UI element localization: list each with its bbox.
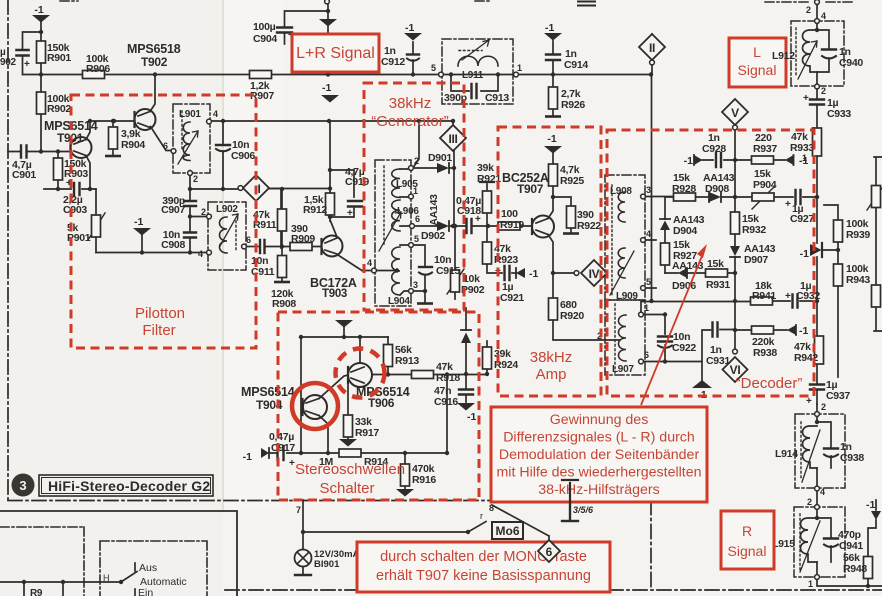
svg-text:-1: -1 xyxy=(405,22,414,34)
svg-text:R937: R937 xyxy=(753,143,777,155)
svg-text:R943: R943 xyxy=(846,274,870,286)
svg-text:R906: R906 xyxy=(86,63,110,75)
svg-text:C933: C933 xyxy=(827,108,851,120)
svg-text:C906: C906 xyxy=(231,150,255,162)
svg-text:L908: L908 xyxy=(610,186,632,197)
svg-text:MPS6518: MPS6518 xyxy=(127,42,181,56)
svg-text:C915: C915 xyxy=(436,265,460,277)
svg-text:“Generator”: “Generator” xyxy=(371,113,449,130)
svg-text:902: 902 xyxy=(0,57,17,68)
svg-text:mit Hilfe des wiederhergestell: mit Hilfe des wiederhergestellten xyxy=(496,465,701,481)
svg-text:erhält T907 keine Basisspannun: erhält T907 keine Basisspannung xyxy=(376,568,591,584)
svg-text:R904: R904 xyxy=(121,139,145,151)
svg-text:R908: R908 xyxy=(272,298,296,310)
svg-text:R948: R948 xyxy=(843,563,867,575)
svg-text:L904: L904 xyxy=(388,296,410,307)
svg-text:+: + xyxy=(785,199,791,210)
svg-text:-1: -1 xyxy=(134,216,143,228)
svg-text:C917: C917 xyxy=(271,442,295,454)
svg-text:4: 4 xyxy=(367,258,372,268)
svg-text:1: 1 xyxy=(644,303,649,313)
svg-text:II: II xyxy=(649,41,655,55)
svg-text:R916: R916 xyxy=(412,474,436,486)
svg-text:4: 4 xyxy=(198,249,203,259)
svg-text:2: 2 xyxy=(193,174,198,184)
svg-text:R920: R920 xyxy=(560,310,584,322)
svg-text:R928: R928 xyxy=(672,183,696,195)
svg-text:+: + xyxy=(785,291,791,302)
svg-text:L902: L902 xyxy=(216,204,238,215)
svg-text:R922: R922 xyxy=(577,220,601,232)
svg-text:3/5/6: 3/5/6 xyxy=(573,505,594,515)
svg-text:C921: C921 xyxy=(500,292,524,304)
svg-text:L909: L909 xyxy=(616,291,638,302)
svg-text:R919: R919 xyxy=(500,219,524,231)
svg-text:+: + xyxy=(806,396,812,407)
svg-text:P904: P904 xyxy=(753,179,777,191)
svg-text:C914: C914 xyxy=(564,59,588,71)
svg-text:C903: C903 xyxy=(63,204,87,216)
svg-text:38kHz: 38kHz xyxy=(389,95,432,112)
svg-text:T907: T907 xyxy=(517,182,544,196)
svg-text:L: L xyxy=(753,44,761,60)
svg-text:L911: L911 xyxy=(462,70,484,81)
svg-text:Pilotton: Pilotton xyxy=(135,305,185,322)
svg-text:T902: T902 xyxy=(141,55,168,69)
svg-text:-1: -1 xyxy=(866,499,875,511)
svg-text:R912: R912 xyxy=(303,204,327,216)
svg-text:6: 6 xyxy=(163,141,168,151)
svg-text:R926: R926 xyxy=(561,99,585,111)
svg-text:4: 4 xyxy=(646,229,651,239)
svg-text:R931: R931 xyxy=(706,279,730,291)
svg-text:D901: D901 xyxy=(428,152,452,164)
svg-text:+: + xyxy=(803,93,809,104)
svg-text:+: + xyxy=(475,214,481,225)
svg-text:5: 5 xyxy=(431,63,436,73)
svg-text:V: V xyxy=(731,106,739,120)
svg-text:-1: -1 xyxy=(243,451,252,463)
svg-text:2: 2 xyxy=(201,207,206,217)
svg-text:C941: C941 xyxy=(839,540,863,552)
svg-text:Amp: Amp xyxy=(536,366,567,383)
svg-text:4: 4 xyxy=(821,11,826,21)
svg-text:“Decoder”: “Decoder” xyxy=(736,375,803,392)
svg-text:IV: IV xyxy=(589,267,600,281)
svg-text:Ein: Ein xyxy=(138,587,153,596)
svg-text:R941: R941 xyxy=(752,290,776,302)
svg-text:D904: D904 xyxy=(673,225,697,237)
svg-text:Gewinnung des: Gewinnung des xyxy=(550,412,649,428)
svg-text:R913: R913 xyxy=(395,355,419,367)
svg-text:2: 2 xyxy=(821,402,826,412)
svg-text:Signal: Signal xyxy=(728,543,767,559)
svg-text:C932: C932 xyxy=(796,290,820,302)
svg-text:MPS6514: MPS6514 xyxy=(241,385,295,399)
svg-text:R918: R918 xyxy=(436,372,460,384)
svg-text:L+R Signal: L+R Signal xyxy=(296,45,375,62)
svg-text:-1: -1 xyxy=(34,4,43,16)
svg-text:R902: R902 xyxy=(47,103,71,115)
svg-text:L901: L901 xyxy=(179,109,201,120)
svg-text:+: + xyxy=(24,59,30,70)
svg-text:4: 4 xyxy=(213,109,218,119)
svg-text:-1: -1 xyxy=(529,268,538,280)
svg-text:Schalter: Schalter xyxy=(319,480,374,497)
svg-text:-1: -1 xyxy=(799,155,808,167)
svg-text:38kHz: 38kHz xyxy=(530,349,573,366)
svg-text:Differenzsignales (L - R) durc: Differenzsignales (L - R) durch xyxy=(503,430,695,446)
svg-text:-1: -1 xyxy=(545,22,554,34)
svg-text:C922: C922 xyxy=(672,342,696,354)
svg-text:5: 5 xyxy=(414,234,419,244)
svg-text:C907: C907 xyxy=(161,204,185,216)
svg-text:3: 3 xyxy=(646,185,651,195)
svg-text:Filter: Filter xyxy=(142,322,175,339)
svg-text:T903: T903 xyxy=(322,288,347,300)
svg-text:R: R xyxy=(742,523,752,539)
svg-text:C931: C931 xyxy=(706,355,730,367)
svg-text:I: I xyxy=(257,182,260,196)
svg-text:C901: C901 xyxy=(12,169,36,181)
svg-text:r: r xyxy=(480,511,483,521)
svg-text:R939: R939 xyxy=(846,229,870,241)
svg-text:D902: D902 xyxy=(421,230,445,242)
svg-text:C916: C916 xyxy=(434,396,458,408)
svg-text:3: 3 xyxy=(413,280,418,290)
svg-text:C927: C927 xyxy=(790,213,814,225)
svg-text:6: 6 xyxy=(546,545,553,559)
svg-text:R932: R932 xyxy=(742,224,766,236)
svg-text:-1: -1 xyxy=(467,411,476,423)
svg-text:HiFi-Stereo-Decoder G2: HiFi-Stereo-Decoder G2 xyxy=(48,478,210,494)
svg-text:L907: L907 xyxy=(612,364,634,375)
svg-text:R917: R917 xyxy=(355,427,379,439)
svg-text:D907: D907 xyxy=(744,254,768,266)
svg-text:T906: T906 xyxy=(368,396,395,410)
svg-text:-1: -1 xyxy=(800,248,809,260)
svg-text:6: 6 xyxy=(644,350,649,360)
svg-text:1: 1 xyxy=(413,186,418,196)
svg-text:6: 6 xyxy=(246,235,251,245)
svg-text:Demodulation der Seitenbänder: Demodulation der Seitenbänder xyxy=(499,447,700,463)
svg-text:C919: C919 xyxy=(345,176,369,188)
svg-text:III: III xyxy=(448,132,457,146)
svg-text:C938: C938 xyxy=(840,452,864,464)
svg-text:D908: D908 xyxy=(705,183,729,195)
svg-text:AA143: AA143 xyxy=(428,194,440,226)
svg-text:Stereoschwellen: Stereoschwellen xyxy=(295,461,405,478)
svg-text:C940: C940 xyxy=(839,57,863,69)
svg-text:+: + xyxy=(347,208,353,219)
svg-text:-1: -1 xyxy=(684,155,693,167)
svg-text:6: 6 xyxy=(415,214,420,224)
svg-text:C928: C928 xyxy=(702,143,726,155)
svg-text:1: 1 xyxy=(517,63,522,73)
svg-text:2: 2 xyxy=(821,86,826,96)
svg-text:2: 2 xyxy=(414,156,419,166)
svg-text:100µ: 100µ xyxy=(253,21,276,33)
svg-text:3: 3 xyxy=(19,478,26,493)
svg-text:5: 5 xyxy=(646,277,651,287)
svg-text:-1: -1 xyxy=(322,82,331,94)
svg-text:1: 1 xyxy=(808,579,813,589)
svg-text:-1: -1 xyxy=(547,133,556,145)
svg-text:H: H xyxy=(103,573,109,583)
svg-text:C908: C908 xyxy=(161,239,185,251)
svg-text:38-kHz-Hilfsträgers: 38-kHz-Hilfsträgers xyxy=(538,482,659,498)
svg-text:Mo6: Mo6 xyxy=(496,524,520,538)
svg-text:R9: R9 xyxy=(30,588,43,596)
svg-text:R901: R901 xyxy=(47,52,71,64)
svg-text:2: 2 xyxy=(807,497,812,507)
svg-text:Signal: Signal xyxy=(738,62,777,78)
svg-text:15k: 15k xyxy=(707,258,724,270)
svg-text:R938: R938 xyxy=(753,347,777,359)
svg-text:Aus: Aus xyxy=(139,562,157,574)
svg-text:D906: D906 xyxy=(672,280,696,292)
svg-text:BI901: BI901 xyxy=(314,559,340,570)
svg-text:4: 4 xyxy=(820,487,825,497)
svg-text:C913: C913 xyxy=(485,92,509,104)
svg-text:R909: R909 xyxy=(291,233,315,245)
svg-text:C912: C912 xyxy=(381,56,405,68)
svg-text:L914: L914 xyxy=(775,448,798,460)
svg-text:L912: L912 xyxy=(772,50,795,62)
svg-text:R925: R925 xyxy=(560,175,584,187)
svg-text:C937: C937 xyxy=(826,390,850,402)
svg-text:-1: -1 xyxy=(799,325,808,337)
svg-text:2: 2 xyxy=(806,5,811,15)
svg-text:C904: C904 xyxy=(253,33,277,45)
svg-text:7: 7 xyxy=(296,505,301,515)
